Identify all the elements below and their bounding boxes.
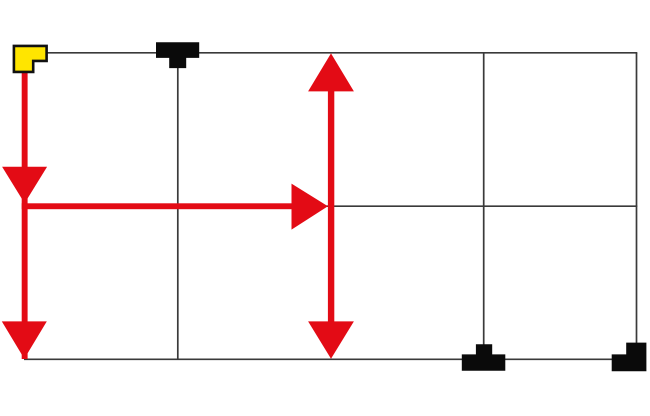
yellow corner marker at top-left: [14, 46, 47, 72]
wire: right vertical border line: [636, 53, 638, 360]
black T marker on top grid line: [156, 42, 199, 68]
red arrow: middle vertical double-headed: [308, 53, 354, 358]
wire: middle horizontal grid line: [22, 205, 637, 207]
wire: bottom horizontal grid line: [24, 358, 644, 360]
wire: vertical grid line at x=178: [177, 53, 179, 360]
black corner L marker at bottom-right: [612, 343, 647, 372]
red arrow: horizontal, pointing right: [22, 184, 328, 230]
wire: vertical grid line at x=484: [483, 53, 485, 360]
black inverted-T marker on bottom grid line: [462, 344, 506, 371]
red arrow: left vertical, two down arrowheads: [2, 68, 47, 359]
wire: top horizontal grid line: [46, 52, 637, 54]
